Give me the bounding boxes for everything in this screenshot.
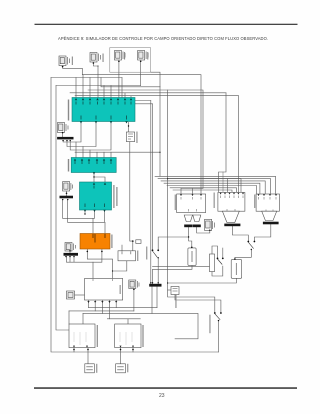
label T2 left outside — [68, 159, 69, 172]
scope S6 — [63, 182, 73, 191]
wire right bundle V2 to SW1 — [152, 104, 154, 250]
source SRC1 — [85, 364, 95, 373]
scope S3 — [115, 51, 126, 61]
wire mux6 down legs — [62, 200, 64, 219]
wire orange out left — [87, 249, 112, 279]
label SRC1 — [96, 364, 97, 373]
teal block T2 — [71, 158, 116, 175]
scope S4 — [138, 51, 149, 61]
wire W1 top input drop — [92, 262, 94, 278]
node scope S9 input dot — [209, 230, 210, 231]
label scope S2 — [103, 54, 104, 63]
wire R2 extra drop — [227, 179, 229, 192]
wire teal1 right outputs to bundle — [135, 100, 151, 102]
label orange right — [111, 235, 112, 249]
timer feed dot — [128, 125, 129, 126]
W2 bottom dots — [73, 349, 75, 351]
label SW4 manual switch — [209, 315, 210, 334]
node junction mid-bus/V3 — [159, 152, 160, 153]
W3 bottom dots — [120, 349, 122, 351]
wire top horiz y91.5 to R1 feed — [88, 90, 203, 189]
wire box bottom extension to V3 — [151, 72, 161, 87]
wire teal3 out x85 — [84, 210, 86, 214]
wire W2 top riser — [82, 313, 84, 324]
label scope S1 — [72, 57, 73, 66]
bottom rule — [34, 387, 297, 389]
timer block — [126, 132, 134, 142]
node scope S3 input dot — [118, 61, 120, 63]
mux bar B3 — [263, 222, 279, 225]
label R2 left — [214, 193, 215, 209]
outline box around scopes 3 and 4 — [110, 48, 151, 73]
mux M7 — [64, 253, 79, 256]
wire W3 bottom left input from SRC2 — [120, 348, 122, 364]
mux bar B1b — [193, 225, 201, 228]
wire teal1 out x111 — [70, 122, 111, 150]
wire L1 to W1 — [75, 294, 85, 296]
node mux M4 input dots — [150, 282, 151, 283]
PI block P2 — [231, 260, 242, 279]
wire W3 bottom right input — [132, 348, 134, 352]
wire U1 output to W1 — [113, 261, 127, 271]
node scope S2 input dot — [93, 62, 95, 64]
wire scope5 stub — [62, 131, 64, 137]
PI block P1 — [188, 248, 196, 266]
teal block T1 induction machine model — [72, 98, 135, 124]
trapezoid G1b under R1 — [193, 215, 201, 222]
switch SW4 lever — [214, 312, 216, 314]
switch SW1 lever — [152, 249, 154, 251]
wire TB1 input stub — [168, 289, 171, 291]
wire SW3 out to P2 — [235, 250, 251, 260]
wire teal1 out to timer — [128, 122, 130, 132]
node scope S1 input dot — [62, 66, 64, 68]
trapezoid G2 under R2 — [222, 211, 239, 222]
wire right bundle V1 — [150, 101, 152, 284]
wire teal2 out to teal3 — [93, 173, 95, 183]
orange block O1 inverter — [80, 234, 110, 250]
label timer — [136, 132, 137, 144]
wire teal1 out x81 to mux5 — [63, 122, 81, 142]
teal2 out dot — [93, 176, 94, 177]
block U1 uPWM — [118, 251, 136, 261]
wire top horiz y88 to V3 — [101, 78, 160, 87]
mux6 leg dots — [62, 199, 63, 200]
wire TB1 to SW4 right — [175, 295, 221, 313]
label scope S4 — [147, 52, 148, 60]
wire V4 down-corner-left to R2 — [219, 93, 227, 192]
svg-text:23: 23 — [159, 393, 165, 399]
wire timer down to U1 — [130, 142, 133, 251]
block R3 transform — [256, 194, 279, 211]
top rule — [35, 24, 298, 25]
teal block T3 SVM compensator — [80, 182, 112, 212]
trapezoid G3 under R3 — [262, 211, 277, 220]
wire top horiz y92.8 to V4 — [70, 92, 226, 94]
wire W3 top riser — [127, 319, 129, 324]
label T1 left outside — [68, 100, 69, 121]
constant block TC1 — [136, 240, 141, 244]
mux M5 — [57, 137, 73, 140]
wire top horiz y74.7 to R1 direct feed — [82, 75, 201, 194]
wire teal2 input drops — [75, 142, 77, 158]
wire scope7 stub — [69, 251, 71, 254]
scope S8 — [129, 280, 139, 289]
block W1 DTC — [85, 279, 123, 304]
mux bar B2 — [224, 224, 240, 227]
wire R1 top drops — [180, 189, 182, 195]
small block TB1 — [171, 287, 179, 295]
wire top horiz y77.5 — [51, 77, 122, 79]
label T3 right — [113, 185, 114, 208]
wire teal3 out x94.5 — [63, 210, 95, 218]
block W2 transform abc-dq — [69, 324, 95, 348]
wire V3b down then R2 feed — [168, 90, 215, 312]
wire W1 bottom stubs — [88, 300, 90, 308]
P1 input dot — [191, 247, 193, 249]
source SRC2 — [116, 364, 126, 373]
label R3 left — [254, 195, 255, 209]
label U1 right — [137, 251, 138, 262]
wire mid bus y152.2 — [75, 151, 160, 153]
wire scope1 drop — [63, 67, 83, 75]
wire top horiz y96 to V5 — [75, 95, 238, 97]
trapezoid G1a under R1 — [184, 215, 192, 222]
label SW up manual switch — [175, 295, 176, 308]
wire SW2 stubs — [212, 246, 218, 258]
P2 input dot — [234, 258, 236, 260]
wire R3 bar to SW3 — [254, 224, 270, 241]
wire feed band staircase to R2 — [170, 188, 237, 192]
wire P2 out left — [168, 278, 237, 283]
saturation block SAT — [210, 254, 215, 272]
node junction P2-out/V167 — [167, 282, 168, 283]
wire scope8 down — [133, 289, 135, 311]
node scope S5 input dot — [62, 132, 64, 134]
node junction S2 bend — [98, 66, 99, 67]
wire scope6 stub — [66, 191, 68, 196]
mux M4 — [149, 284, 161, 287]
scope S9 — [205, 219, 215, 230]
wire teal3 out x104.5 — [68, 210, 105, 222]
switch SW3 lever — [247, 241, 249, 243]
wire orange out right — [67, 249, 102, 262]
wire SW4 out down to H352 — [218, 321, 220, 352]
node scope S7 input dot — [69, 250, 71, 252]
wire SW1 right feed from R1 junction — [158, 237, 188, 250]
wire mux7 legs to lower bus — [66, 257, 68, 262]
wire bottom mesh h3 — [83, 313, 198, 338]
wire W2 bottom left input — [73, 348, 75, 352]
wire R1 bar1 to P1 — [189, 227, 192, 247]
mux7 leg dots — [65, 256, 66, 257]
label W2 right — [97, 325, 98, 347]
wire SAT out left — [153, 265, 210, 267]
wire orange input drops — [92, 218, 94, 233]
wire P1 out left — [153, 265, 193, 283]
label R1 left — [175, 195, 176, 211]
teal3 stub dot — [84, 213, 85, 214]
scope S1 — [59, 56, 70, 66]
label SW1 manual switch — [146, 247, 147, 260]
label SRC2 — [127, 364, 128, 373]
wire bottom mesh h1 — [89, 307, 158, 309]
wire R2 bar to SW3 — [232, 226, 248, 241]
scope S5 — [58, 123, 69, 133]
scope S2 — [90, 53, 101, 63]
wire V3 down then R3 feed — [159, 87, 161, 177]
node junction V167/feed-band — [167, 178, 168, 179]
wire R1 bar2 to scope9 — [197, 227, 210, 233]
node scope S6 input dot — [66, 193, 68, 195]
orange out dots — [87, 251, 89, 253]
node junction R1-bar branch — [188, 236, 189, 237]
wire SW1 out to mux M4 — [157, 258, 159, 284]
label P2 inside — [236, 263, 237, 275]
wire scope2 drop — [93, 63, 98, 98]
node scope S4 input dot — [140, 61, 142, 63]
block R1 flux observer — [177, 194, 206, 213]
label W1 DTC inside — [120, 285, 121, 294]
switch SW2 lever — [217, 258, 219, 260]
mux bar B1a — [184, 225, 192, 228]
svg-text:APÊNDICE 9: SIMULADOR DE CONTR: APÊNDICE 9: SIMULADOR DE CONTROLE POR CA… — [58, 36, 268, 41]
wire feed band staircase to R3 — [155, 176, 276, 193]
wire mux M4 outs — [151, 287, 153, 314]
wire left boundary vertical B — [56, 86, 69, 331]
block W3 transform — [115, 324, 141, 348]
scope S7 — [65, 243, 76, 252]
wire U1 second input — [121, 245, 123, 251]
wire teal1 input drops — [75, 78, 77, 98]
mux5 leg dots — [62, 140, 63, 141]
block R2 transform — [218, 193, 245, 212]
wire top horiz y85.5 — [56, 85, 141, 87]
block L1 — [67, 291, 75, 299]
wire scope3 drop to teal1 — [118, 61, 120, 97]
label W3 right — [142, 325, 143, 347]
wire scope4 drop — [140, 61, 142, 85]
wire bottom mesh h4 — [107, 318, 140, 320]
U1 input dot — [132, 240, 134, 242]
wire teal1 out x96 — [67, 122, 96, 146]
label scope S3 — [124, 52, 125, 60]
label P1 inside — [192, 251, 193, 262]
mux M6 — [60, 196, 74, 199]
wire V5 down to R2 — [237, 96, 239, 192]
wire W2 bottom right input from SRC1 — [87, 348, 89, 364]
wire bottom mesh h2 — [69, 310, 134, 312]
wire left boundary vertical A — [51, 78, 219, 353]
